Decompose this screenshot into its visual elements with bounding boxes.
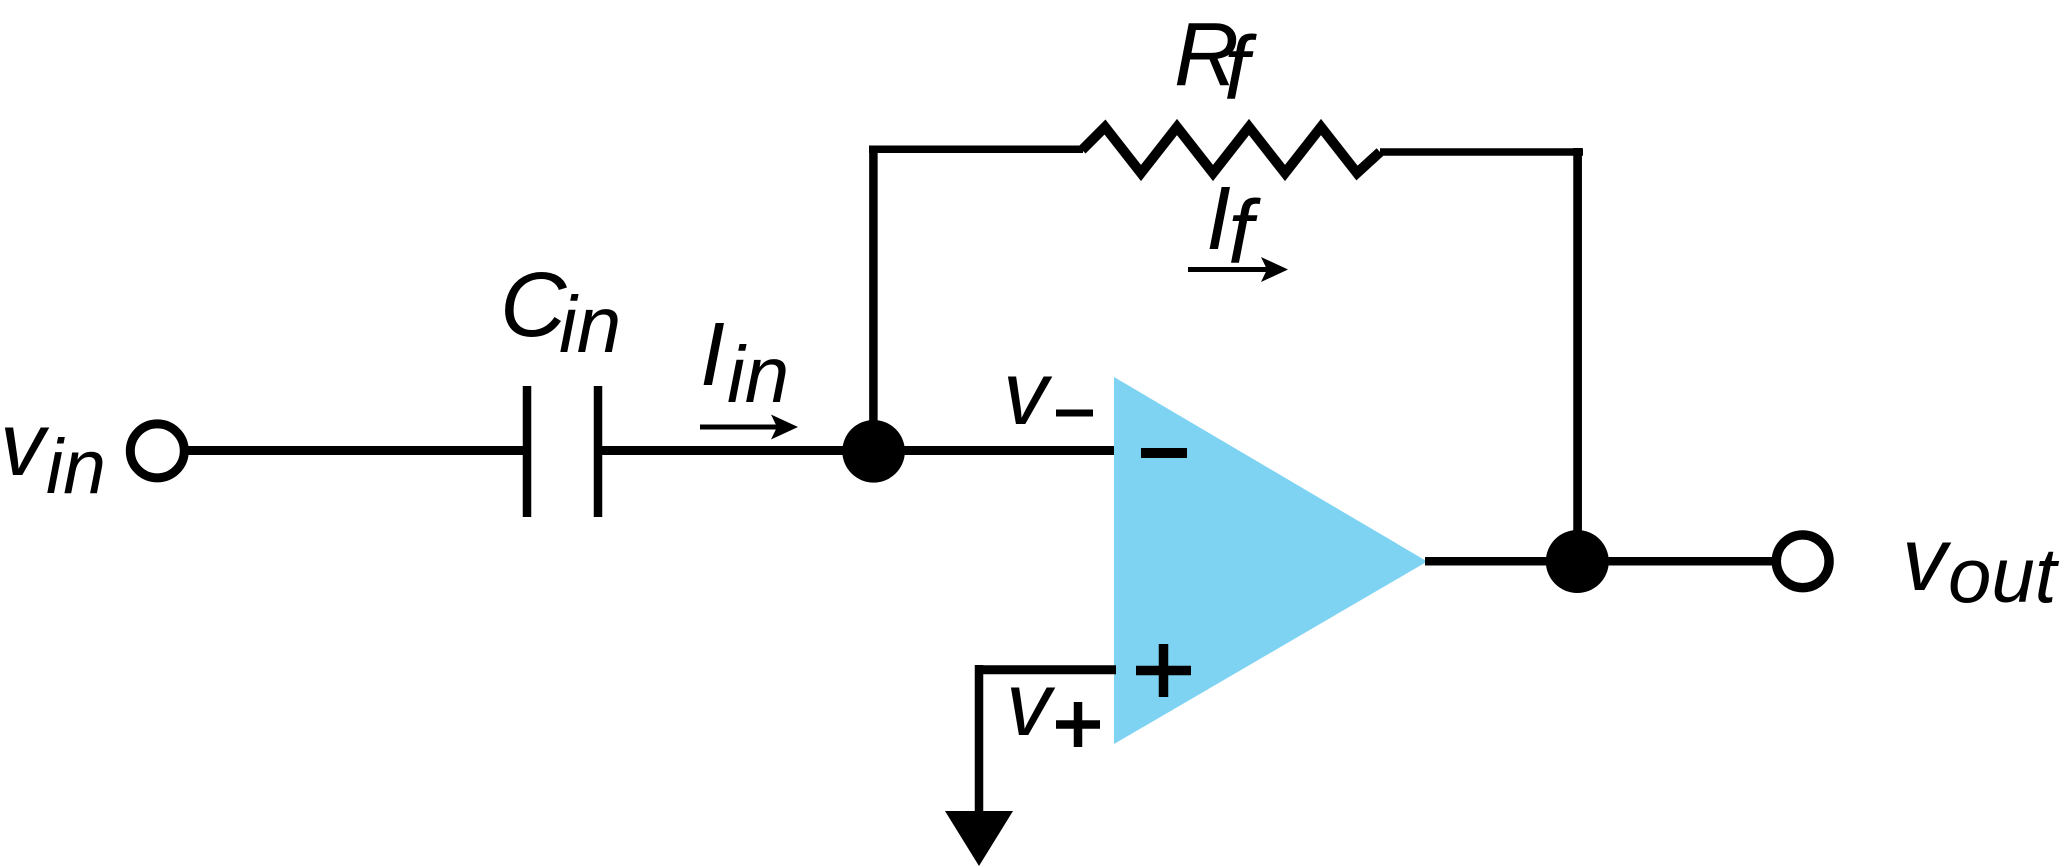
svg-text:v: v [1003, 344, 1053, 444]
op-amp inverting input minus sign [1141, 448, 1187, 458]
input terminal (open circle) [130, 424, 184, 478]
wire: feedback drop to output node [1573, 148, 1582, 561]
label vin [0, 395, 106, 510]
wire: feedback top left [869, 146, 1083, 154]
ground arrow [945, 811, 1013, 866]
svg-text:v: v [1902, 510, 1952, 610]
wire: node B to output terminal [1577, 557, 1778, 566]
svg-text:in: in [46, 424, 106, 510]
svg-text:in: in [559, 280, 621, 369]
current arrow Iin [700, 415, 798, 440]
wire: ground drop [975, 665, 984, 815]
svg-text:I: I [700, 305, 725, 405]
svg-text:in: in [727, 330, 789, 419]
label v- [1003, 344, 1093, 444]
svg-text:v: v [0, 395, 50, 495]
label Iin [700, 305, 789, 419]
wire: non-inverting input horizontal [975, 665, 1116, 674]
op-amp non-inverting input plus sign [1136, 644, 1191, 697]
svg-text:C: C [500, 254, 567, 356]
label Rf [1174, 5, 1257, 119]
label v+ [1006, 655, 1100, 755]
wire: feedback riser from node A [869, 149, 878, 451]
wire: node A to op-amp inverting input [873, 446, 1116, 455]
node B (output junction dot) [1546, 530, 1609, 593]
svg-text:v: v [1006, 655, 1056, 755]
op-amp U1 body [1114, 377, 1427, 744]
label vout [1902, 510, 2060, 619]
resistor Rf [1082, 127, 1380, 173]
wire: capacitor to node A [602, 446, 873, 455]
node A (summing junction dot) [842, 420, 905, 483]
current arrow If [1188, 257, 1288, 282]
wire: input terminal to capacitor [188, 446, 523, 455]
output terminal (open circle) [1776, 535, 1829, 588]
label If [1206, 169, 1261, 283]
label Cin [500, 254, 621, 369]
wire: feedback top right [1380, 148, 1583, 156]
wire: op-amp output to node B [1425, 557, 1577, 566]
capacitor Cin [527, 386, 598, 517]
svg-text:out: out [1948, 531, 2060, 619]
